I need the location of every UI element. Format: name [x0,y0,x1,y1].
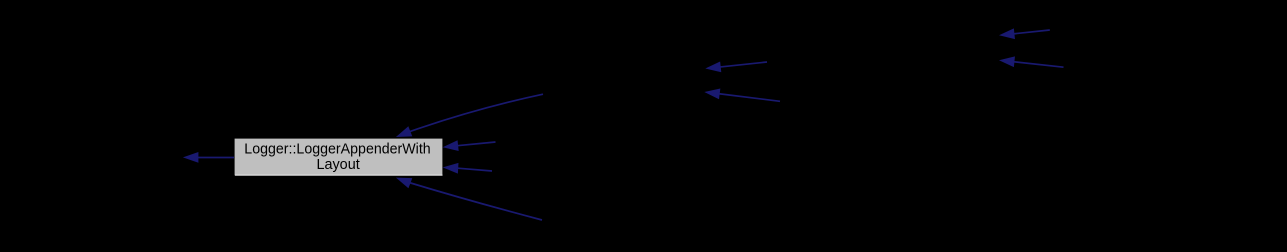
arrow mid upper (into invisible box at x=705) [705,62,767,74]
node Logger::LoggerAppenderWithLayout (grey box) [234,138,443,176]
arrow from derived (top curve) [394,94,543,142]
arrow from derived (bottom curve) [394,173,542,220]
arrow from derived (upper right horizontal) [442,140,495,152]
svg-text:Layout: Layout [316,157,359,173]
arrow right upper (into invisible box at x=999) [998,28,1049,40]
svg-text:Logger::LoggerAppenderWith: Logger::LoggerAppenderWith [244,142,430,158]
arrow mid lower (into invisible box at x=705) [704,87,780,102]
arrow from derived (lower right horizontal) [442,162,492,174]
arrow to base class (left) [183,152,234,163]
arrow right lower (into invisible box at x=999) [998,55,1063,67]
